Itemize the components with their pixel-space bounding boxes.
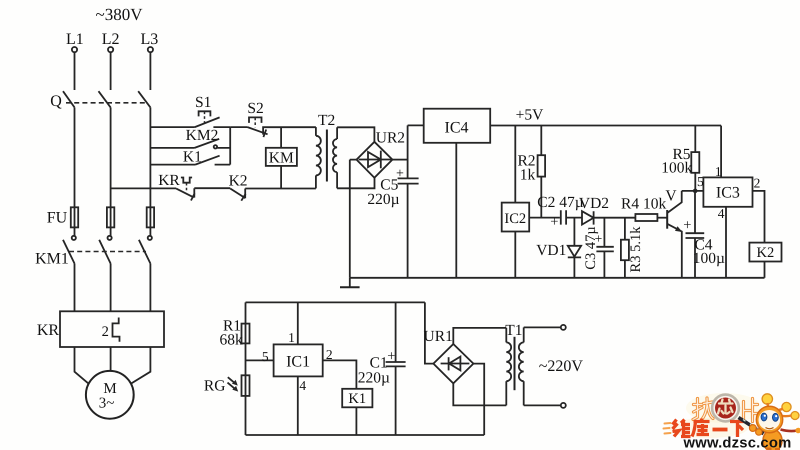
svg-text:KM1: KM1 [35, 251, 69, 268]
svg-text:+: + [683, 218, 691, 234]
svg-text:IC3: IC3 [716, 185, 740, 202]
svg-text:K1: K1 [348, 391, 366, 407]
svg-text:1: 1 [288, 330, 295, 345]
svg-text:220µ: 220µ [358, 370, 390, 387]
svg-text:VD2: VD2 [579, 195, 609, 212]
svg-text:V: V [665, 187, 677, 204]
svg-text:5: 5 [262, 349, 269, 364]
svg-text:~380V: ~380V [96, 5, 144, 24]
svg-text:100k: 100k [661, 160, 692, 177]
svg-text:KR: KR [37, 322, 60, 339]
svg-text:KM: KM [269, 149, 294, 166]
svg-text:+: + [387, 349, 395, 365]
svg-text:+5V: +5V [516, 106, 544, 123]
svg-text:K2: K2 [229, 172, 248, 189]
svg-text:R4 10k: R4 10k [621, 195, 666, 212]
svg-text:VD1: VD1 [536, 242, 566, 259]
svg-text:RG: RG [204, 378, 226, 395]
svg-text:R3 5.1k: R3 5.1k [628, 226, 644, 273]
svg-text:S1: S1 [195, 94, 211, 111]
svg-text:2: 2 [754, 176, 761, 191]
svg-text:68k: 68k [219, 332, 243, 349]
svg-text:KR: KR [158, 172, 180, 189]
svg-text:FU: FU [47, 210, 68, 227]
svg-text:2: 2 [326, 347, 333, 362]
svg-text:C2 47µ: C2 47µ [537, 194, 583, 211]
svg-text:L2: L2 [102, 31, 120, 48]
svg-text:IC2: IC2 [504, 211, 526, 227]
svg-text:T2: T2 [318, 112, 335, 129]
svg-text:L3: L3 [141, 31, 159, 48]
svg-text:+: + [550, 214, 558, 230]
svg-text:2: 2 [102, 324, 109, 340]
svg-text:4: 4 [299, 378, 306, 393]
svg-text:1: 1 [715, 164, 722, 179]
svg-text:4: 4 [718, 206, 725, 221]
svg-text:5: 5 [697, 174, 704, 189]
svg-text:UR1: UR1 [424, 328, 453, 345]
svg-text:+: + [396, 166, 404, 181]
svg-text:KM2: KM2 [186, 127, 219, 144]
svg-text:www.dzsc.com: www.dzsc.com [683, 435, 792, 450]
svg-text:Q: Q [50, 93, 62, 110]
svg-text:T1: T1 [505, 322, 522, 339]
svg-text:100µ: 100µ [693, 250, 725, 267]
svg-text:~220V: ~220V [539, 358, 584, 375]
svg-text:K2: K2 [757, 245, 775, 261]
svg-text:UR2: UR2 [376, 130, 405, 147]
svg-text:3~: 3~ [99, 396, 115, 412]
svg-text:S2: S2 [247, 100, 263, 117]
svg-text:IC4: IC4 [445, 120, 469, 137]
svg-text:K1: K1 [183, 149, 202, 166]
svg-text:C3 47µ: C3 47µ [583, 226, 599, 269]
svg-text:220µ: 220µ [367, 191, 399, 208]
svg-text:1k: 1k [520, 167, 536, 184]
svg-text:L1: L1 [66, 31, 84, 48]
svg-text:IC1: IC1 [286, 353, 310, 370]
